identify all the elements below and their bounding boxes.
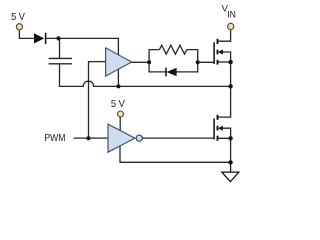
svg-text:5 V: 5 V: [11, 12, 25, 23]
svg-text:IN: IN: [227, 9, 236, 19]
svg-text:PWM: PWM: [44, 133, 65, 144]
svg-text:5 V: 5 V: [111, 99, 125, 110]
